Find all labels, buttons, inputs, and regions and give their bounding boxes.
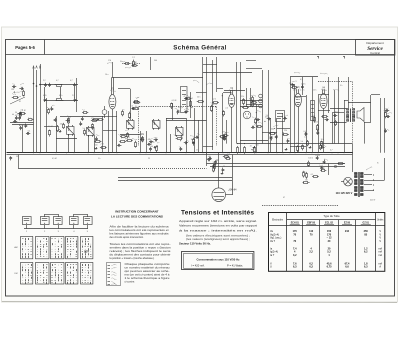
svg-text:2,2: 2,2 <box>225 107 228 109</box>
svg-text:47 k: 47 k <box>265 117 268 119</box>
svg-text:100 k: 100 k <box>314 122 318 124</box>
svg-text:à la masse ; intensités en mA): à la masse ; intensités en mA). <box>179 228 257 232</box>
svg-text:25: 25 <box>250 145 252 147</box>
svg-text:0,1: 0,1 <box>311 174 314 176</box>
svg-text:2,2: 2,2 <box>309 251 313 254</box>
svg-text:68: 68 <box>305 180 307 182</box>
svg-text:Pages 5-6: Pages 5-6 <box>15 45 35 50</box>
svg-text:50: 50 <box>296 143 298 145</box>
svg-text:Tensions et Intensités: Tensions et Intensités <box>181 210 254 217</box>
svg-text:qui peut les associer au sché-: qui peut les associer au sché- <box>125 269 170 273</box>
svg-text:sentées dans la position « rep: sentées dans la position « repos » (bout… <box>110 245 172 249</box>
svg-text:25: 25 <box>223 166 225 168</box>
svg-text:0,5 M: 0,5 M <box>48 126 53 128</box>
svg-text:6,3: 6,3 <box>364 266 368 269</box>
svg-text:100 k: 100 k <box>301 83 305 85</box>
svg-text:12 k: 12 k <box>293 90 296 92</box>
svg-text:0,5 M: 0,5 M <box>315 155 320 157</box>
svg-text:Central: Central <box>370 51 380 55</box>
svg-text:500: 500 <box>95 144 98 146</box>
svg-text:des circuits après interventio: des circuits après intervention. <box>110 235 145 239</box>
svg-text:0,1: 0,1 <box>28 131 31 133</box>
svg-text:500: 500 <box>154 60 157 62</box>
svg-text:5 k: 5 k <box>301 141 303 143</box>
svg-text:1 k: 1 k <box>131 105 133 107</box>
svg-text:0,1: 0,1 <box>15 115 18 117</box>
svg-text:50: 50 <box>317 128 319 130</box>
svg-text:50: 50 <box>152 142 154 144</box>
svg-text:mA: mA <box>378 254 382 257</box>
svg-text:12 k: 12 k <box>313 90 316 92</box>
svg-text:Ia T: Ia T <box>270 254 275 257</box>
svg-text:0,1: 0,1 <box>252 150 255 152</box>
svg-text:2,2: 2,2 <box>132 57 135 59</box>
svg-text:6,2: 6,2 <box>364 251 368 254</box>
svg-text:50: 50 <box>213 162 215 164</box>
svg-text:0,1: 0,1 <box>304 131 307 133</box>
svg-text:6,3: 6,3 <box>309 266 313 269</box>
svg-text:12 k: 12 k <box>241 96 244 98</box>
svg-text:Chaque plaquette comporte: Chaque plaquette comporte <box>125 262 171 266</box>
svg-text:0,1: 0,1 <box>300 79 303 81</box>
svg-text:47: 47 <box>184 96 186 98</box>
svg-text:12 k: 12 k <box>322 90 325 92</box>
svg-text:Type du Tube: Type du Tube <box>323 214 340 218</box>
svg-text:les commutateurs ont été repré: les commutateurs ont été représentés et <box>110 228 169 232</box>
svg-text:GZT: GZT <box>84 250 90 254</box>
svg-text:relevés) ; les flèches indique: relevés) ; les flèches indiquent le sens <box>110 249 172 253</box>
svg-text:5 k: 5 k <box>120 61 122 63</box>
svg-text:la position « travail » (touch: la position « travail » (touche abaissée… <box>110 256 155 260</box>
svg-text:500: 500 <box>255 144 258 146</box>
svg-text:I = 420 mA.: I = 420 mA. <box>191 263 205 267</box>
svg-text:6,75: 6,75 <box>327 266 332 269</box>
svg-text:GZ 81: GZ 81 <box>363 222 370 224</box>
svg-text:10 n: 10 n <box>335 112 339 114</box>
svg-text:10 n: 10 n <box>105 74 109 76</box>
svg-text:ci-contre.: ci-contre. <box>125 279 136 283</box>
svg-text:ECH 81: ECH 81 <box>291 222 300 224</box>
svg-text:EBF 80: EBF 80 <box>307 222 316 224</box>
svg-text:10 n: 10 n <box>321 139 325 141</box>
svg-text:U: U <box>270 266 272 269</box>
svg-text:47 k: 47 k <box>180 137 183 139</box>
svg-text:10 n: 10 n <box>312 115 316 117</box>
svg-text:220: 220 <box>11 89 14 91</box>
svg-text:0,5 M: 0,5 M <box>320 168 325 170</box>
svg-text:220: 220 <box>141 134 144 136</box>
svg-text:500: 500 <box>271 129 274 131</box>
svg-text:220 V: 220 V <box>370 200 376 202</box>
svg-text:2,2: 2,2 <box>43 80 46 82</box>
svg-text:LA LECTURE DES COMMUTATIONS: LA LECTURE DES COMMUTATIONS <box>111 214 163 218</box>
svg-text:Schéma Général: Schéma Général <box>173 45 226 52</box>
svg-text:1 k: 1 k <box>302 90 304 92</box>
svg-text:10 n: 10 n <box>197 96 201 98</box>
svg-text:un numéro matérisé du réseau: un numéro matérisé du réseau <box>125 265 171 269</box>
svg-text:1 k: 1 k <box>196 150 198 152</box>
svg-text:Valeurs moyennes (tensions en: Valeurs moyennes (tensions en volts par … <box>179 224 257 228</box>
svg-text:0,1: 0,1 <box>304 137 307 139</box>
svg-text:110 125 220 V: 110 125 220 V <box>336 191 353 195</box>
svg-text:0,05: 0,05 <box>43 95 47 97</box>
svg-text:INSTRUCTION CONCERNANT: INSTRUCTION CONCERNANT <box>115 209 158 213</box>
svg-text:du déplacement des contacts po: du déplacement des contacts pour obtenir <box>110 252 171 256</box>
svg-text:5 k: 5 k <box>83 128 85 130</box>
svg-text:les liaisons aériennes figurée: les liaisons aériennes figurées aux endr… <box>110 232 170 236</box>
svg-text:1 M: 1 M <box>108 60 111 62</box>
svg-text:12 k: 12 k <box>212 99 215 101</box>
svg-text:220: 220 <box>284 130 287 132</box>
svg-text:Toutes les commutations ont ét: Toutes les commutations ont été repré- <box>110 242 171 246</box>
svg-text:6,3: 6,3 <box>293 266 297 269</box>
svg-text:47: 47 <box>283 197 285 199</box>
svg-text:Afin de faciliter la lecture d: Afin de faciliter la lecture du schéma <box>110 225 170 229</box>
svg-text:500: 500 <box>150 146 153 148</box>
svg-text:1 M: 1 M <box>22 110 25 112</box>
svg-text:50: 50 <box>15 112 17 114</box>
svg-text:0,5 M: 0,5 M <box>52 158 57 160</box>
svg-text:5 k: 5 k <box>340 85 342 87</box>
svg-text:Va T: Va T <box>270 240 276 243</box>
svg-text:EZ 80: EZ 80 <box>344 222 351 224</box>
svg-text:220: 220 <box>60 124 63 126</box>
svg-text:0,02: 0,02 <box>20 125 24 127</box>
svg-text:3,2: 3,2 <box>293 254 297 257</box>
svg-text:Electrodes: Electrodes <box>272 219 284 222</box>
svg-text:AM: AM <box>14 246 17 249</box>
svg-text:Département: Département <box>366 41 384 45</box>
svg-text:FM: FM <box>14 273 17 275</box>
svg-text:244: 244 <box>345 230 350 233</box>
svg-text:Unités: Unités <box>377 218 384 221</box>
svg-text:47 k: 47 k <box>59 95 62 97</box>
svg-text:6,6: 6,6 <box>345 266 349 269</box>
svg-text:4,7: 4,7 <box>56 80 59 82</box>
svg-text:ma (on voit ci-contre) ainsi d: ma (on voit ci-contre) ainsi de 4 à <box>125 272 171 276</box>
svg-text:EM 84: EM 84 <box>230 189 238 192</box>
svg-text:Secteur 110 Volts 50 Hz.: Secteur 110 Volts 50 Hz. <box>179 241 211 245</box>
svg-text:2,2: 2,2 <box>72 95 75 97</box>
svg-text:ECL 82: ECL 82 <box>325 222 333 224</box>
svg-text:4,7: 4,7 <box>330 150 333 152</box>
svg-text:25: 25 <box>148 158 150 160</box>
svg-text:1 le schéma théorique a figure: 1 le schéma théorique a figure <box>125 276 171 280</box>
svg-text:Appareil réglé sur 162 m. arrê: Appareil réglé sur 162 m. arrêté, sans s… <box>179 219 257 223</box>
svg-text:(les valeurs électriques sont: (les valeurs électriques sont mesurées) … <box>186 235 250 238</box>
svg-text:4,7: 4,7 <box>70 80 73 82</box>
svg-text:4,7: 4,7 <box>148 139 151 141</box>
svg-text:0,05: 0,05 <box>224 156 228 158</box>
svg-text:Consommation sous 110 V/50 Hz: Consommation sous 110 V/50 Hz <box>197 257 241 261</box>
svg-text:100 k: 100 k <box>308 158 312 160</box>
svg-text:47: 47 <box>334 119 336 121</box>
svg-text:0,5 M: 0,5 M <box>172 100 177 102</box>
svg-text:P = 41 Watts.: P = 41 Watts. <box>227 263 243 267</box>
svg-text:1 k: 1 k <box>98 158 100 160</box>
